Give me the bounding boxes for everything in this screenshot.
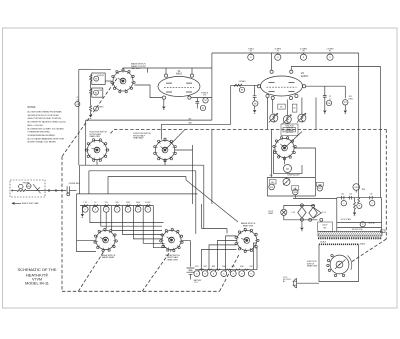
- wire top-left horizontal: [79, 68, 91, 70]
- resistor R35 (ohms chain): [230, 266, 240, 277]
- potentiometer R14: [297, 113, 306, 122]
- rotary switch SW7 (range switch rear): [235, 228, 259, 252]
- probe dashed box: [10, 180, 45, 197]
- wire x212 lower vertical: [211, 130, 213, 205]
- ground below C4: [323, 111, 326, 114]
- wire bus y120: [86, 119, 212, 121]
- divider box left: [76, 194, 78, 252]
- svg-text:LAMP: LAMP: [268, 212, 274, 215]
- wire R17 down: [344, 105, 346, 110]
- rotary switch SW6 (range switch front): [160, 228, 183, 251]
- svg-text:DBL: DBL: [188, 118, 191, 120]
- dashed linkage to function switch: [352, 239, 386, 262]
- svg-text:HALF ACW: HALF ACW: [131, 67, 141, 70]
- tube V2 pin 3: [271, 96, 274, 99]
- tube V2 pin 9: [289, 96, 292, 99]
- wire C3 down: [254, 97, 256, 101]
- wire cluster left edge: [267, 98, 269, 130]
- transformer secondary winding: [319, 243, 359, 245]
- wire divider tap 1: [90, 206, 164, 223]
- label range switch rear view: [241, 222, 256, 227]
- svg-text:SCREWDRIVER ADJUSTMENT.: SCREWDRIVER ADJUSTMENT.: [28, 134, 56, 137]
- label A+ BLUE: [369, 221, 376, 224]
- svg-text:OTHERWISE SPECIFIED.: OTHERWISE SPECIFIED.: [28, 132, 51, 134]
- resistor R3 designator: [94, 106, 104, 111]
- resistor R1 designator: [94, 75, 105, 81]
- box label CAL: [291, 186, 298, 190]
- label NO VOLT ADJ: [341, 218, 351, 221]
- wire pot2 stub: [286, 100, 288, 116]
- wire ohms tap 4: [226, 236, 237, 270]
- svg-text:WAFER REAR: WAFER REAR: [102, 256, 115, 259]
- resistor R2 designator: [94, 90, 103, 95]
- label R7: [188, 122, 192, 125]
- resistor R1 designator box: [92, 73, 105, 85]
- tube V1 6AL5 envelope: [158, 77, 200, 97]
- resistor R18 body (probe): [17, 190, 26, 192]
- phone jack symbol: [67, 186, 70, 196]
- svg-text:R1: R1: [95, 78, 97, 80]
- heater pin a: [300, 204, 303, 207]
- label BLACK TEST LEAD: [22, 202, 39, 205]
- function switch box: [319, 244, 359, 281]
- dashed linkage diagonal 2: [142, 250, 171, 291]
- svg-text:SCHEMATIC OF THE: SCHEMATIC OF THE: [18, 267, 57, 272]
- wire V1 pin7 stub: [191, 68, 193, 74]
- potentiometer R13 (AC BAL): [282, 115, 291, 124]
- resistor divider R25 (500V): [135, 202, 141, 212]
- resistor R31b body: [358, 198, 360, 204]
- svg-text:C1: C1: [76, 97, 78, 99]
- svg-text:REAR VIEW: REAR VIEW: [90, 135, 101, 138]
- wire SW4 left drop: [274, 150, 275, 174]
- label 6.3V right: [322, 212, 327, 214]
- wire divider tap 7: [153, 206, 166, 248]
- wire x336 vertical: [336, 198, 338, 232]
- svg-text:R25: R25: [270, 175, 273, 177]
- svg-text:R36: R36: [240, 266, 243, 268]
- bias box top: [267, 176, 315, 178]
- svg-text:.02: .02: [76, 99, 78, 101]
- resistor R16 designator: [326, 96, 331, 106]
- ground heater: [300, 228, 303, 231]
- svg-text:12AU7: 12AU7: [301, 75, 309, 78]
- wire chain bottom: [90, 112, 92, 115]
- tube V1 pin 5: [188, 96, 191, 99]
- no-volt stub: [354, 198, 356, 202]
- wire cluster right edge: [315, 98, 317, 130]
- capacitor C17: [370, 194, 373, 200]
- resistor R3 body: [90, 106, 92, 112]
- svg-text:R7: R7: [277, 51, 279, 53]
- resistor R17 designator: [343, 96, 354, 105]
- resistor R34 (ohms chain): [221, 266, 231, 277]
- label 117V 60 cycle: [283, 277, 292, 283]
- svg-text:ALL RESISTOR VALUES IN OHMS. K: ALL RESISTOR VALUES IN OHMS. K=1000,: [28, 121, 67, 124]
- svg-text:REAR VIEW: REAR VIEW: [167, 258, 178, 261]
- svg-text:R30: R30: [362, 189, 365, 191]
- resistor R31 (ohms chain): [194, 266, 204, 277]
- resistor R33 (ohms chain): [211, 266, 221, 277]
- dashed panel line vertical: [61, 157, 63, 292]
- wire SW5 top pin riser: [105, 212, 107, 229]
- svg-text:BLACK: BLACK: [360, 243, 366, 246]
- meter M1: [284, 165, 292, 173]
- heater ground stub: [301, 221, 303, 227]
- svg-text:REAR HALF: REAR HALF: [133, 137, 144, 140]
- svg-text:6AL5: 6AL5: [176, 73, 182, 76]
- wire ohms tap 2: [209, 245, 237, 270]
- resistor R5 designator: [200, 105, 205, 110]
- resistor R1 body: [90, 75, 92, 82]
- B+ filter bus: [337, 197, 382, 199]
- label BLACK left: [321, 241, 327, 244]
- ground divider: [81, 214, 84, 217]
- wire V1 pin5 right: [191, 97, 212, 99]
- tube V2 12AU7 envelope: [261, 76, 303, 96]
- resistor R18 designator: [27, 184, 32, 189]
- wire SW5 left pin: [77, 240, 96, 242]
- capacitor C16: [349, 194, 352, 200]
- wire cal to B+ bus: [293, 195, 337, 199]
- wire pot1 stub: [272, 100, 274, 114]
- svg-text:R3: R3: [95, 108, 97, 110]
- wire left vertical bus: [78, 69, 80, 165]
- terminal box BRN: [380, 230, 385, 233]
- svg-text:R5: R5: [202, 108, 204, 110]
- selector label box: [283, 127, 295, 132]
- heater pin d: [309, 218, 312, 221]
- svg-text:ALL RESISTORS 1/2 WATT 10% UNL: ALL RESISTORS 1/2 WATT 10% UNLESS: [28, 127, 65, 130]
- svg-text:R8: R8: [302, 51, 304, 53]
- capacitor C3: [253, 96, 257, 98]
- label function switch rear: [133, 133, 151, 139]
- tube V2 pin 6: [270, 70, 273, 73]
- svg-text:117 V.: 117 V.: [283, 277, 288, 279]
- svg-text:R4: R4: [204, 100, 206, 102]
- svg-text:R26: R26: [270, 187, 273, 189]
- svg-text:R31: R31: [195, 266, 198, 268]
- svg-text:1 MEG: 1 MEG: [248, 48, 254, 50]
- ground below V1: [162, 107, 165, 110]
- ground no-volt: [353, 213, 356, 216]
- label range switch wafer 1: [131, 63, 147, 70]
- heater pin e: [320, 218, 323, 221]
- label PILOT LAMP: [268, 211, 274, 215]
- wire leg1 down: [324, 86, 326, 95]
- wire x161 drop to SW4: [160, 124, 162, 139]
- potentiometer R12 (DC BAL): [269, 113, 278, 122]
- rotary switch SW3 (function switch rear): [154, 138, 177, 162]
- wire right vertical x358: [358, 53, 360, 198]
- dashed linkage diagonal 1: [78, 250, 105, 291]
- wire nest L1: [80, 165, 204, 228]
- svg-text:NOTES: NOTES: [28, 107, 36, 109]
- wire divider tap 6: [143, 206, 164, 244]
- current chain bus: [195, 269, 257, 271]
- tube V1 pin 2: [162, 96, 165, 99]
- wire SW1 top pin up: [122, 68, 124, 69]
- svg-text:R15: R15: [349, 96, 352, 98]
- wire SW3 right: [175, 149, 193, 151]
- resistor divider R26 (1500V): [145, 202, 151, 212]
- wire V1 cathode to ground: [163, 99, 165, 106]
- heater V2 filament: [309, 207, 321, 218]
- wire ohms tap 1: [202, 249, 237, 269]
- rotary switch SW5 (range switch wafer 2): [94, 228, 117, 251]
- svg-text:3.3 MEG: 3.3 MEG: [300, 48, 308, 50]
- tube V2 pin 7: [257, 85, 260, 88]
- B+ lower bus: [337, 222, 382, 224]
- svg-text:AT ZERO SIGNAL VOLT METER.: AT ZERO SIGNAL VOLT METER.: [28, 141, 57, 144]
- wire nest vertical x227: [226, 229, 228, 234]
- wire x85.7 drop: [85, 120, 87, 165]
- svg-text:R18: R18: [27, 186, 30, 188]
- resistor R37 (ohms chain): [248, 266, 254, 277]
- resistor R8 on B+ line: [300, 48, 308, 60]
- svg-text:R28: R28: [294, 192, 297, 194]
- tube V1 pin 1: [164, 74, 167, 77]
- wire SW4 right drop: [294, 148, 315, 177]
- label range switch wafer 2: [101, 254, 116, 259]
- wire divider tap 3: [112, 206, 162, 231]
- svg-text:ALL SWITCHES VIEWED FROM REAR.: ALL SWITCHES VIEWED FROM REAR.: [28, 111, 63, 114]
- SW3 pointer: [165, 130, 185, 150]
- svg-text:SOURCE: SOURCE: [201, 93, 208, 95]
- pilot lamp PL1: [281, 209, 287, 215]
- wire top bus y68: [123, 67, 212, 69]
- resistor R2 body: [90, 89, 92, 95]
- svg-text:R8: R8: [241, 90, 243, 92]
- resistor R32b body: [354, 202, 356, 209]
- wire V2 pin2 right: [306, 85, 346, 87]
- probe contact: [19, 184, 23, 188]
- notes body text: [28, 111, 67, 144]
- svg-text:BLACK: BLACK: [321, 241, 327, 244]
- label TO AMP ADJ: [287, 173, 300, 176]
- wire diagonal to SW6: [186, 180, 238, 222]
- svg-text:R35: R35: [232, 266, 235, 268]
- divider bus: [80, 205, 153, 207]
- wire bus y124: [161, 123, 230, 125]
- wire right vertical x380: [380, 67, 382, 198]
- svg-text:C1: C1: [76, 104, 78, 106]
- label PHONE JACK: [69, 182, 81, 185]
- wire R9 down: [254, 106, 256, 110]
- wire SW3 bottom drop: [164, 160, 166, 166]
- B+ 430VDC bus: [337, 227, 382, 229]
- svg-text:SET: SET: [271, 182, 274, 184]
- svg-text:430 VDC POW: 430 VDC POW: [352, 229, 363, 231]
- potentiometer R29 designator: [317, 186, 322, 191]
- potentiometer R27 (zero adj): [283, 177, 290, 185]
- capacitor C15 designator: [341, 201, 346, 206]
- label source cluster: [201, 93, 208, 97]
- bias box bottom: [267, 195, 315, 197]
- potentiometer R28 designator: [293, 189, 298, 194]
- rectifier designator: [360, 222, 365, 227]
- wire chain mid 1: [90, 81, 92, 89]
- resistor R9 designator: [253, 101, 258, 106]
- wire chain mid 2: [90, 95, 92, 106]
- junction ring jack: [55, 190, 57, 192]
- svg-text:ALL VOLTAGES MEASURED WITH VTV: ALL VOLTAGES MEASURED WITH VTVM: [28, 137, 65, 140]
- transformer T1 primary winding: [318, 237, 382, 239]
- probe tip wire: [13, 190, 18, 192]
- resistor divider R20 (1.5V): [82, 202, 88, 212]
- wire y66 line: [291, 67, 380, 71]
- svg-text:1500V: 1500V: [145, 202, 151, 204]
- probe wire to jack: [26, 190, 66, 192]
- resistor R36 (ohms chain): [239, 266, 249, 277]
- rotary switch SW2 (function switch front): [85, 139, 109, 162]
- meter box bottom: [274, 165, 303, 174]
- wire SW2 bottom drop: [96, 160, 98, 166]
- svg-text:R9: R9: [329, 51, 331, 53]
- wire SW1 right to V1: [135, 85, 163, 98]
- svg-text:1 MEG: 1 MEG: [98, 106, 104, 108]
- dashed linkage bottom horizontal: [62, 290, 220, 292]
- svg-text:R9: R9: [254, 103, 256, 105]
- title SCHEMATIC OF THE HEATHKIT VTVM MODEL IM-11: [18, 267, 57, 285]
- label BLACK right: [360, 243, 366, 246]
- box label GET: [269, 180, 276, 184]
- svg-text:R32: R32: [203, 266, 206, 268]
- probe switch lever: [33, 184, 41, 193]
- svg-text:R34: R34: [222, 266, 225, 268]
- rotary switch SW1 wafer (range switch wafer 1): [111, 69, 135, 93]
- svg-text:10 MEG: 10 MEG: [275, 48, 282, 50]
- transformer T1 core: [318, 231, 383, 236]
- svg-text:500V: 500V: [136, 202, 141, 204]
- AC plug P1: [293, 278, 297, 288]
- resistor R4 designator: [203, 98, 208, 103]
- wire x271 vertical: [271, 130, 273, 178]
- tube V2 pin 4: [295, 94, 298, 97]
- svg-text:PHONE JACK: PHONE JACK: [69, 182, 81, 185]
- wire vertical x212: [211, 53, 213, 120]
- capacitor C15: [341, 194, 344, 200]
- wire battery bottom: [190, 274, 192, 279]
- box label LINE: [316, 182, 323, 186]
- label R6: [188, 118, 191, 120]
- svg-text:SHOWN WITH IN 1/2 V POSITIONS.: SHOWN WITH IN 1/2 V POSITIONS.: [28, 115, 60, 117]
- rotary switch SW8 (power function switch): [327, 254, 352, 276]
- svg-text:SELECTOR SWITCH IN AC POSITION: SELECTOR SWITCH IN AC POSITION.: [28, 117, 62, 120]
- tube V1 pin 7: [190, 74, 193, 77]
- svg-text:PUSH IN: PUSH IN: [97, 75, 104, 77]
- svg-text:R33: R33: [212, 266, 215, 268]
- wire C3 stub: [254, 85, 256, 96]
- wire divider tap 5: [133, 206, 163, 239]
- wire nest L2: [89, 171, 196, 234]
- resistor divider R22 (15V): [103, 202, 109, 212]
- capacitor C4: [323, 96, 327, 98]
- svg-text:C15: C15: [341, 194, 344, 196]
- wire ohms tap 3: [218, 240, 237, 269]
- junction ring probe: [48, 190, 50, 192]
- svg-text:R16: R16: [327, 103, 330, 105]
- tube V2 pin 2: [303, 85, 306, 88]
- wire R30 bottom: [355, 190, 357, 192]
- heater top bus: [284, 205, 315, 209]
- resistor R6 on B+ line: [248, 48, 254, 60]
- wire ohms right tap 1: [254, 243, 257, 270]
- heater pin b: [312, 204, 315, 207]
- resistor divider R24 (150V): [125, 202, 131, 212]
- label V1 6AL5: [176, 70, 182, 76]
- resistor R32 (ohms chain): [202, 266, 212, 277]
- probe tip: [11, 190, 13, 192]
- svg-text:REAR VIEW: REAR VIEW: [307, 264, 317, 267]
- svg-text:BLACK TEST LEAD: BLACK TEST LEAD: [22, 202, 39, 205]
- wire SW4 bottom drop: [284, 158, 286, 165]
- wire chain top to switch: [91, 68, 111, 70]
- wire x381 vertical: [381, 198, 383, 232]
- svg-text:-DC POS.: -DC POS.: [286, 132, 294, 134]
- battery B1: [187, 268, 195, 274]
- wire x192 vertical: [192, 145, 194, 204]
- svg-text:3.3 MEG: 3.3 MEG: [238, 81, 246, 83]
- wire V2 pin6 up: [271, 53, 273, 70]
- wire divider tap 4: [123, 206, 163, 235]
- wire divider tap 2: [101, 206, 162, 227]
- wire C4 down: [324, 97, 326, 110]
- wire top line y53: [212, 52, 359, 54]
- wire SW1 to box: [105, 80, 111, 82]
- wire C2 stub: [196, 98, 198, 102]
- heater pin c: [300, 218, 303, 221]
- wire divider ground stub: [81, 206, 83, 214]
- resistor R2 designator box: [92, 88, 103, 97]
- capacitor C17 designator: [370, 201, 375, 206]
- ground below R9: [253, 110, 256, 113]
- bias box left: [266, 177, 268, 196]
- divider box top: [77, 193, 198, 195]
- resistor R30 designator: [353, 184, 365, 192]
- wire stub down at 147.6: [147, 68, 149, 73]
- svg-text:2.2 MEG: 2.2 MEG: [326, 48, 334, 50]
- dashed linkage diagonal 3: [220, 255, 240, 292]
- wire jack to divider box: [70, 190, 77, 192]
- label range switch front: [165, 254, 180, 261]
- wire SW6 to battery: [181, 241, 190, 267]
- svg-text:R6: R6: [250, 51, 252, 53]
- svg-text:1 MEG: 1 MEG: [348, 98, 354, 100]
- box label DC BAL: [292, 104, 297, 112]
- label PROBE: [23, 183, 30, 185]
- heater V1 filament: [298, 207, 306, 218]
- rotary switch SW4 (selector switch): [273, 137, 296, 160]
- no-volt ground stub: [354, 209, 356, 212]
- resistor divider R23 (50V): [114, 202, 120, 212]
- selector pointer: [285, 132, 303, 149]
- resistor R9 on B+ line: [326, 48, 334, 60]
- potentiometer R26 designator: [269, 184, 275, 190]
- svg-text:R29: R29: [318, 188, 321, 190]
- capacitor C2: [195, 102, 199, 104]
- label 6.3V left: [292, 212, 297, 214]
- ground below R3: [89, 115, 92, 118]
- wire nest vertical x201: [202, 204, 228, 229]
- bias box right: [314, 177, 316, 196]
- svg-text:.01: .01: [329, 98, 331, 100]
- svg-text:C16: C16: [370, 194, 373, 196]
- wire leg2 down: [344, 86, 346, 98]
- wire x230.7 riser: [230, 85, 232, 124]
- label 430 VDC: [352, 229, 363, 231]
- box label AC BAL: [278, 104, 285, 109]
